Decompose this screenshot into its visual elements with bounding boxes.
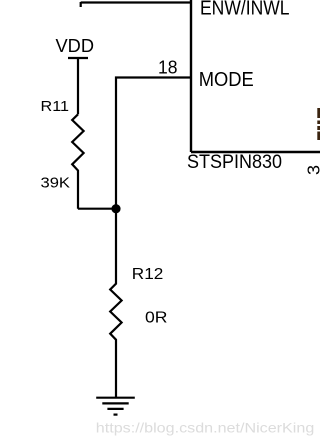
power symbol VDD — [56, 36, 95, 114]
wire: R11 bottom to node A — [78, 208, 116, 210]
svg-text:0R: 0R — [145, 310, 168, 327]
svg-text:MODE: MODE — [199, 69, 254, 91]
node A junction dot — [111, 204, 120, 213]
svg-text:18: 18 — [158, 58, 178, 78]
wire: ENW/INWL pin wire with stub — [81, 2, 191, 7]
svg-text:R11: R11 — [41, 98, 70, 115]
svg-text:R12: R12 — [132, 266, 164, 283]
svg-text:3: 3 — [303, 165, 320, 175]
wire: MODE pin 18 wire down to node A — [116, 78, 191, 209]
svg-text:https://blog.csdn.net/NicerKin: https://blog.csdn.net/NicerKing — [96, 420, 314, 436]
svg-text:39K: 39K — [41, 174, 71, 191]
resistor R12 — [110, 209, 167, 398]
svg-text:ENW/INWL: ENW/INWL — [200, 0, 290, 20]
svg-text:VDD: VDD — [56, 36, 95, 56]
svg-text:STSPIN830: STSPIN830 — [187, 152, 282, 173]
IC U1 STSPIN830 (partial outline: left edge and bottom edge) — [191, 0, 320, 152]
ground — [96, 398, 135, 415]
net label (clipped at right edge) — [317, 108, 320, 140]
resistor R11 — [41, 98, 84, 209]
